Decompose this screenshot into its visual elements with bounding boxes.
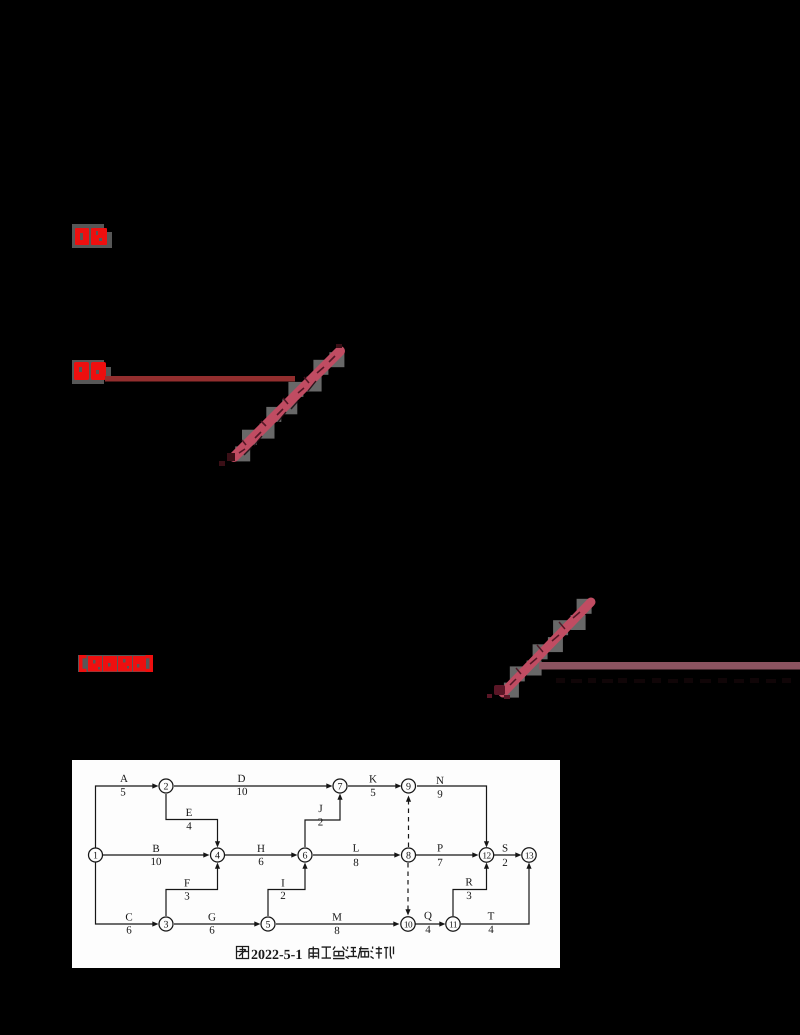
svg-text:8: 8 — [353, 857, 359, 869]
wire T: node11 right then up into node13 bottom — [461, 865, 529, 924]
wire K: node7 to node9 — [348, 785, 399, 787]
node 12 — [479, 848, 493, 862]
watermark diagonal 1 grey steps — [235, 352, 344, 461]
wire A: node1 up and right to node2 — [96, 786, 157, 848]
wire G: node3 to node5 — [174, 923, 258, 925]
svg-text:A: A — [120, 773, 128, 785]
svg-text:B: B — [152, 843, 159, 855]
svg-text:4: 4 — [186, 821, 192, 833]
wire I: node5 up, right, into node6 bottom — [268, 865, 305, 916]
svg-text:6: 6 — [209, 925, 215, 937]
caption: 施工总进度计划 (fake hanzi) — [309, 947, 394, 959]
svg-text:9: 9 — [437, 789, 443, 801]
node 7 — [333, 779, 347, 793]
red highlight label 1 (grey box) — [72, 224, 112, 248]
underline line 2 (mauve) — [539, 662, 800, 670]
watermark diagonal 2 grey steps — [504, 599, 592, 698]
red highlight label 2 text blob — [74, 362, 106, 380]
dashed dummy: node8 up to node9 — [408, 798, 410, 847]
node 6 — [298, 848, 312, 862]
svg-text:T: T — [488, 911, 495, 923]
svg-text:3: 3 — [184, 891, 190, 903]
svg-text:8: 8 — [406, 850, 411, 861]
node 5 — [261, 917, 275, 931]
wire R: node11 up, right, into node12 bottom — [453, 865, 487, 916]
svg-text:N: N — [436, 775, 444, 787]
svg-text:5: 5 — [370, 787, 376, 799]
svg-text:2: 2 — [318, 817, 324, 829]
wire M: node5 to node10 — [276, 923, 397, 925]
node 13 — [522, 848, 536, 862]
svg-text:D: D — [238, 773, 246, 785]
svg-text:6: 6 — [126, 925, 132, 937]
watermark 1 tail dark marks — [219, 344, 342, 466]
red highlight label 1 text blob — [75, 228, 107, 245]
wire B: node1 to node4 — [103, 854, 207, 856]
svg-text:K: K — [369, 774, 377, 786]
svg-text:Q: Q — [424, 910, 432, 922]
node 4 — [211, 848, 225, 862]
wire H: node4 to node6 — [225, 854, 295, 856]
svg-text:L: L — [353, 843, 360, 855]
svg-text:2: 2 — [164, 781, 169, 792]
node 9 — [402, 779, 416, 793]
svg-text:G: G — [208, 912, 216, 924]
svg-text:5: 5 — [266, 919, 271, 930]
svg-text:3: 3 — [164, 919, 169, 930]
svg-text:4: 4 — [425, 924, 431, 936]
svg-text:10: 10 — [404, 920, 413, 930]
node 1 — [89, 848, 103, 862]
svg-text:F: F — [184, 878, 190, 890]
svg-text:S: S — [502, 843, 508, 855]
dashed dummy: node8 down to node10 — [407, 863, 409, 914]
svg-text:6: 6 — [303, 850, 308, 861]
svg-text:R: R — [465, 877, 473, 889]
svg-text:10: 10 — [151, 856, 163, 868]
activity labels (letter above, duration below) — [120, 773, 508, 937]
svg-text:3: 3 — [466, 890, 472, 902]
svg-text:8: 8 — [334, 925, 340, 937]
svg-text:2: 2 — [502, 857, 508, 869]
svg-text:2: 2 — [280, 890, 286, 902]
node 8 — [402, 848, 416, 862]
svg-text:13: 13 — [525, 851, 534, 861]
svg-text:H: H — [257, 843, 265, 855]
svg-text:9: 9 — [406, 781, 411, 792]
watermark diagonal 1 rose streak — [234, 351, 340, 457]
watermark 2 tail dark cluster — [487, 685, 510, 699]
node 11 — [446, 917, 460, 931]
svg-text:6: 6 — [258, 856, 264, 868]
wire L: node6 to node8 — [313, 854, 398, 856]
svg-text:E: E — [186, 807, 193, 819]
svg-text:C: C — [125, 912, 132, 924]
svg-text:12: 12 — [482, 851, 491, 861]
wire J: node6 up, right, into node7 bottom — [305, 796, 340, 847]
svg-text:2022-5-1: 2022-5-1 — [251, 948, 302, 963]
svg-text:5: 5 — [120, 787, 126, 799]
red highlight label 2 (grey box) — [72, 360, 111, 384]
node circles — [89, 779, 537, 931]
svg-text:11: 11 — [449, 920, 458, 930]
underline line 1 (brick red) — [105, 376, 295, 382]
svg-text:4: 4 — [215, 850, 220, 861]
svg-text:1: 1 — [93, 850, 98, 861]
svg-text:7: 7 — [437, 857, 443, 869]
svg-text:10: 10 — [237, 786, 249, 798]
wire F: node3 up, right, into node4 bottom — [166, 865, 218, 916]
wire D: node2 to node7 — [174, 785, 330, 787]
node numbers — [93, 781, 534, 930]
node 10 — [401, 917, 415, 931]
red bracket label 3 (grey band) — [78, 655, 153, 672]
watermark diagonal 2 rose streak — [503, 602, 591, 693]
svg-text:P: P — [437, 843, 443, 855]
svg-text:I: I — [281, 878, 285, 890]
wire Q: node10 to node11 — [415, 923, 443, 925]
arrowheads — [152, 783, 531, 926]
node 2 — [159, 779, 173, 793]
node 3 — [159, 917, 173, 931]
red bracket label 3 text — [79, 655, 153, 672]
wire S: node12 to node13 — [494, 854, 519, 856]
svg-text:M: M — [332, 912, 342, 924]
caption: 图 2022-5-1 (fake hanzi) — [237, 947, 249, 959]
svg-text:J: J — [318, 803, 323, 815]
wire N: node9 right then down into node12 top — [417, 786, 487, 845]
faint text remnants under line 2 — [556, 678, 791, 683]
wire C: node1 down and right to node3 — [96, 862, 157, 924]
svg-text:7: 7 — [338, 781, 343, 792]
white diagram panel — [72, 760, 560, 968]
wire P: node8 to node12 — [416, 854, 476, 856]
svg-text:4: 4 — [488, 924, 494, 936]
wire E: node2 down, right, into node4 top — [166, 794, 218, 845]
